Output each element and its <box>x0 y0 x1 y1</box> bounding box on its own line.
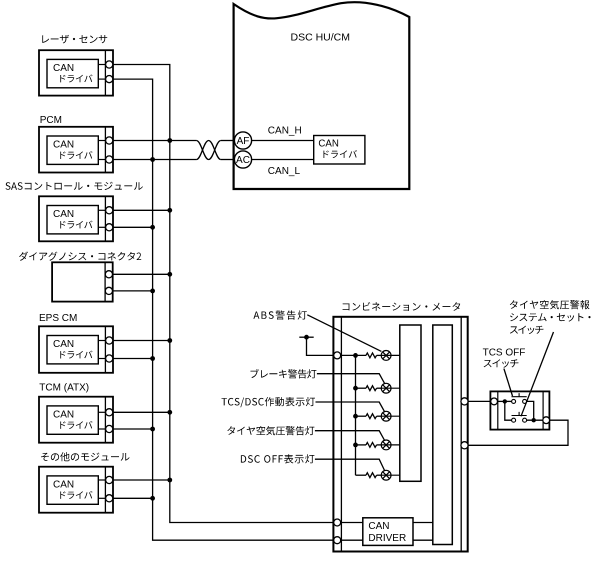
wire: diagnosis connector 2 pin2 to CAN_L bus <box>113 290 153 292</box>
wire: diagnosis connector 2 pin1 to CAN_H bus <box>113 273 170 275</box>
power feed bar <box>299 336 313 338</box>
CAN driver label (kana) in TCM (ATX) <box>60 421 92 429</box>
label: tire pressure warning lamp <box>227 426 314 435</box>
wire: AF terminal to CAN driver (CAN_H inside DSC) <box>252 140 314 142</box>
label: brake warning lamp <box>251 369 317 379</box>
wire: resistor to lamp brake warning lamp <box>377 387 382 389</box>
CAN DRIVER box in meter <box>363 518 413 546</box>
pin stub wires other modules <box>98 480 105 498</box>
resistor (filament) of tire pressure warning lamp <box>366 443 377 448</box>
wire: switch return loop to meter <box>468 420 568 445</box>
CAN driver label (kana) in other modules <box>60 491 92 499</box>
pin 2 of PCM <box>106 156 113 163</box>
pin 1 of SAS control module <box>106 207 113 214</box>
wire: feed rail to TCS/DSC indicator lamp <box>356 415 367 417</box>
wire: SAS control module pin1 to CAN_H bus <box>113 209 170 211</box>
svg-text:CAN: CAN <box>368 521 389 532</box>
wire: power feed to meter pin <box>307 337 334 355</box>
label: combination meter <box>343 302 461 311</box>
junction at switch input <box>503 399 507 403</box>
svg-text:CAN_L: CAN_L <box>268 166 301 177</box>
label: tire pressure warning system set switch (line 3) <box>510 326 544 335</box>
power feed node <box>304 335 309 340</box>
pin 1 of PCM <box>106 137 113 144</box>
wire: branch down to set switch <box>505 401 512 420</box>
CAN driver box inside TCM (ATX) <box>47 406 98 434</box>
wire: twisted pair to AF terminal <box>221 140 235 142</box>
wire: twisted pair to AC terminal <box>221 159 235 161</box>
pin 1 of laser sensor <box>106 61 113 68</box>
label: TCS OFF switch (line 2) <box>484 359 519 368</box>
terminal AC <box>234 151 251 168</box>
junction on CAN_L bus <box>150 225 155 230</box>
label: laser sensor <box>42 35 107 44</box>
switch box pin (left) <box>491 398 498 405</box>
junction on CAN_L bus <box>150 496 155 501</box>
wire: EPS CM pin1 to CAN_H bus <box>113 340 170 342</box>
pin 2 of other modules <box>106 495 113 502</box>
module TCM (ATX): outer box <box>39 397 113 443</box>
label: DSC OFF indicator lamp <box>241 454 315 463</box>
junction at switch output <box>532 418 536 422</box>
junction on feed rail row 4 <box>353 443 358 448</box>
label: ABS warning lamp <box>253 310 306 319</box>
CAN driver box inside laser sensor <box>47 59 98 87</box>
leader line: TCS OFF switch <box>504 369 513 396</box>
svg-text:CAN: CAN <box>53 339 74 350</box>
twisted pair symbol: CAN_L strand <box>196 141 220 160</box>
label: tire pressure warning system set switch (line 2) <box>510 313 591 321</box>
wire: pin to TCS OFF switch contact <box>498 400 512 402</box>
junction on CAN_L bus <box>150 356 155 361</box>
terminal AF <box>234 132 251 149</box>
pin stub wires EPS CM <box>98 341 105 359</box>
junction on feed rail row 1 <box>353 353 358 358</box>
svg-text:CAN: CAN <box>53 479 74 490</box>
wire: PCM pin2 to twisted pair (CAN_L) <box>113 159 197 161</box>
pin 2 of SAS control module <box>106 224 113 231</box>
svg-text:CAN: CAN <box>53 209 74 220</box>
junction on CAN_L bus <box>150 289 155 294</box>
wire: meter to switch box <box>468 400 490 402</box>
wire: resistor to lamp DSC OFF indicator lamp <box>377 474 382 476</box>
leader line: set switch <box>521 332 554 416</box>
module laser sensor: outer box <box>39 50 113 95</box>
junction on CAN_H bus <box>167 478 172 483</box>
wire: PCM pin1 to twisted pair (CAN_H) <box>113 140 197 142</box>
CAN driver box inside PCM <box>47 136 98 164</box>
wire: resistor to lamp TCS/DSC indicator lamp <box>377 415 382 417</box>
svg-text:AF: AF <box>237 136 250 147</box>
wire: SAS control module pin2 to CAN_L bus <box>113 226 153 228</box>
svg-text:DSC HU/CM: DSC HU/CM <box>291 31 351 43</box>
internal block 2 <box>433 325 453 545</box>
wire: CAN DRIVER to block2 (H) <box>413 522 433 524</box>
leader line: tire pressure warning lamp <box>315 431 385 441</box>
pin 2 of EPS CM <box>106 355 113 362</box>
lamp tire pressure warning lamp <box>381 440 400 450</box>
svg-text:CAN: CAN <box>53 139 74 150</box>
CAN driver label (kana) in PCM <box>60 151 92 159</box>
wire: CAN_L bus (from laser sensor pin2 down to combination meter) <box>113 79 334 540</box>
CAN driver box inside DSC HU/CM <box>314 136 365 165</box>
svg-text:CAN: CAN <box>53 63 74 74</box>
junction on CAN_L bus <box>150 157 155 162</box>
svg-text:CAN: CAN <box>318 139 338 150</box>
wire: feed rail to brake warning lamp <box>356 387 367 389</box>
wire: CAN_H bus (from laser sensor pin1 down to combination meter) <box>113 65 334 523</box>
module other modules: outer box <box>39 467 113 513</box>
svg-text:DRIVER: DRIVER <box>368 533 406 544</box>
svg-text:TCM (ATX): TCM (ATX) <box>39 383 89 394</box>
wire: EPS CM pin2 to CAN_L bus <box>113 358 153 360</box>
junction on feed rail row 3 <box>353 414 358 419</box>
pin stub wires PCM <box>98 141 105 160</box>
wire: pin to feed rail row1 <box>341 354 366 356</box>
lamp DSC OFF indicator lamp <box>381 470 400 480</box>
junction on CAN_H bus <box>167 138 172 143</box>
pin stub wires TCM (ATX) <box>98 412 105 429</box>
meter power pin <box>334 352 341 359</box>
svg-text:CAN: CAN <box>53 409 74 420</box>
internal block 1 (lamp bus bar) <box>400 325 421 481</box>
wire: set switch to right pin <box>527 419 543 421</box>
wire: other modules pin1 to CAN_H bus <box>113 479 170 481</box>
wire: CAN_L pin to CAN DRIVER <box>341 539 363 541</box>
set switch blade <box>512 412 527 416</box>
CAN driver box inside SAS control module <box>47 206 98 234</box>
leader line: ABS warning lamp <box>307 315 381 352</box>
twisted pair symbol: CAN_H strand <box>196 141 220 160</box>
resistor (filament) of ABS warning lamp <box>366 353 377 358</box>
svg-text:AC: AC <box>236 155 250 166</box>
junction on CAN_H bus <box>167 410 172 415</box>
wire: CAN_H pin to CAN DRIVER <box>341 522 363 524</box>
wire: TCM (ATX) pin2 to CAN_L bus <box>113 428 153 430</box>
module SAS control module: outer box <box>39 196 113 241</box>
label: diagnosis connector 2 <box>19 252 141 261</box>
leader line: DSC OFF indicator lamp <box>315 459 385 471</box>
module PCM: outer box <box>39 127 113 173</box>
wire: resistor to lamp tire pressure warning lamp <box>377 444 382 446</box>
wire: feed rail to DSC OFF indicator lamp <box>356 474 367 476</box>
lamp ABS warning lamp <box>381 351 400 361</box>
pin stub wires laser sensor <box>98 65 105 80</box>
DSC HU/CM unit box (torn wavy top edge) <box>234 2 410 189</box>
wire: other modules pin2 to CAN_L bus <box>113 497 153 499</box>
svg-text:EPS CM: EPS CM <box>39 313 77 324</box>
pin 1 of TCM (ATX) <box>106 409 113 416</box>
pin 2 of diagnosis connector 2 <box>105 287 112 294</box>
CAN driver label (kana) in SAS control module <box>60 221 92 229</box>
TCS OFF switch blade <box>512 393 527 397</box>
pin 2 of TCM (ATX) <box>106 425 113 432</box>
svg-text:TCS OFF: TCS OFF <box>483 348 526 359</box>
pin 1 of EPS CM <box>106 337 113 344</box>
lamp feed rail <box>355 355 357 475</box>
CAN driver box inside EPS CM <box>47 336 98 364</box>
pin stub wires SAS control module <box>98 210 105 227</box>
svg-text:CAN_H: CAN_H <box>268 125 302 136</box>
resistor (filament) of brake warning lamp <box>366 386 377 391</box>
TCS OFF switch contacts <box>512 399 527 403</box>
pin 1 of diagnosis connector 2 <box>105 271 112 278</box>
CAN driver label (kana) in laser sensor <box>60 75 92 83</box>
resistor (filament) of DSC OFF indicator lamp <box>366 473 377 478</box>
resistor (filament) of TCS/DSC indicator lamp <box>366 414 377 419</box>
meter pin: CAN_L in <box>334 537 341 544</box>
junction on CAN_H bus <box>167 272 172 277</box>
lamp brake warning lamp <box>381 383 400 393</box>
svg-text:PCM: PCM <box>40 115 62 126</box>
set switch contacts <box>512 418 527 422</box>
junction on CAN_L bus <box>150 427 155 432</box>
label: tire pressure warning system set switch (line 1) <box>510 300 590 309</box>
leader line: TCS/DSC indicator lamp <box>316 402 385 412</box>
wire: TCM (ATX) pin1 to CAN_H bus <box>113 411 170 413</box>
wire: resistor to lamp ABS warning lamp <box>377 354 382 356</box>
pin 2 of laser sensor <box>106 76 113 83</box>
meter pin: to TCS OFF switch <box>461 398 468 405</box>
module diagnosis connector 2: outer box <box>52 262 113 301</box>
pin 1 of other modules <box>106 476 113 483</box>
label: SAS control module <box>6 182 143 190</box>
switch assembly box <box>490 391 549 429</box>
combination meter box <box>333 317 467 552</box>
CAN driver box inside other modules <box>47 476 98 504</box>
junction on feed rail row 2 <box>353 386 358 391</box>
junction on CAN_H bus <box>167 338 172 343</box>
wire: AC terminal to CAN driver (CAN_L inside DSC) <box>252 159 314 161</box>
label: TCS/DSC indicator lamp <box>222 397 316 407</box>
meter pin: CAN_H in <box>334 519 341 526</box>
wire: TCS OFF switch to set switch output <box>527 401 534 420</box>
junction on CAN_H bus <box>167 208 172 213</box>
CAN driver label (kana) in EPS CM <box>60 351 92 359</box>
switch box pin (right) <box>543 417 550 424</box>
CAN driver label (kana) in DSC <box>323 150 357 158</box>
module EPS CM: outer box <box>39 326 113 373</box>
wire: feed rail to tire pressure warning lamp <box>356 444 367 446</box>
meter pin: switch return <box>461 442 468 449</box>
wire: CAN DRIVER to block2 (L) <box>413 539 433 541</box>
label: other modules <box>41 452 130 461</box>
lamp TCS/DSC indicator lamp <box>381 411 400 421</box>
leader line: brake warning lamp <box>317 374 385 384</box>
